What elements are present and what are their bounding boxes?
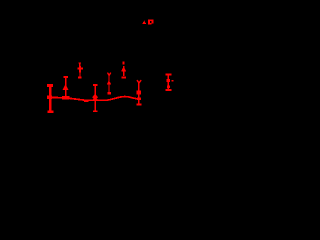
current source I1 arrow: [63, 76, 69, 96]
net label Q: [148, 20, 154, 25]
resistor R1: [137, 81, 142, 106]
arrow marker A1: [107, 73, 112, 94]
capacitor C2: [92, 84, 98, 112]
diode D1: [165, 74, 173, 91]
wire junction tick: [124, 96, 126, 98]
node junction J1: [62, 96, 69, 100]
power symbol VCC arrow: [142, 21, 146, 25]
capacitor C1: [48, 84, 54, 112]
wire main bus: [50, 97, 139, 101]
wire bump thickening: [84, 100, 89, 102]
probe arrow P1: [77, 62, 83, 78]
probe arrow P2: [121, 62, 126, 79]
